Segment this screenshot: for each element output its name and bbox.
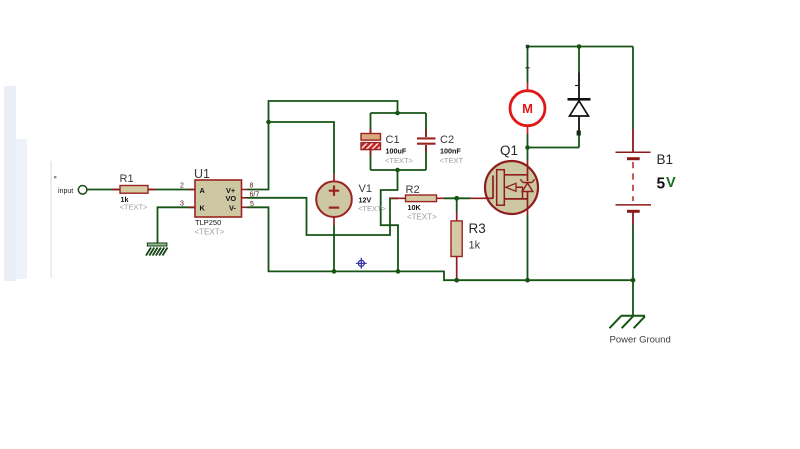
node junction gate <box>454 196 459 201</box>
resistor R2 <box>390 184 444 222</box>
svg-text:M: M <box>522 101 533 116</box>
wire U1 pin 5 to bottom common rail <box>247 207 633 280</box>
svg-text:<TEXT>: <TEXT> <box>120 202 149 211</box>
wire gate stub <box>470 197 488 199</box>
node junction R3 bottom <box>454 278 459 283</box>
node junction at V+ branch <box>266 120 271 125</box>
node junction diode top <box>577 44 582 49</box>
svg-text:5: 5 <box>657 175 666 192</box>
svg-text:100nF: 100nF <box>440 147 461 156</box>
svg-text:Q1: Q1 <box>500 143 518 158</box>
svg-text:R3: R3 <box>469 221 486 236</box>
wire gate node down to R3 <box>456 198 458 212</box>
svg-text:<TEXT>: <TEXT> <box>385 156 414 165</box>
wire branch to V1 plus <box>269 122 335 174</box>
artifact speck <box>54 176 56 178</box>
transistor Q1 MOSFET <box>485 143 538 214</box>
svg-text:100uF: 100uF <box>386 147 407 156</box>
svg-text:10K: 10K <box>408 203 422 212</box>
pin number 5 <box>250 201 254 208</box>
pin stub drain <box>527 161 529 167</box>
svg-text:A: A <box>200 186 206 195</box>
pin number 6/7 <box>250 191 260 198</box>
svg-text:U1: U1 <box>194 167 210 181</box>
motor M1 <box>510 83 545 135</box>
svg-text:R2: R2 <box>406 184 420 196</box>
svg-text:1k: 1k <box>469 240 481 252</box>
resistor R3 <box>451 212 486 280</box>
svg-text:V-: V- <box>229 203 237 212</box>
origin marker <box>356 258 367 269</box>
wire R2 to gate node <box>444 197 470 199</box>
svg-text:K: K <box>200 203 206 212</box>
pin number 3 <box>180 200 184 207</box>
wire motor top to rail <box>527 47 529 83</box>
wire V1 minus down <box>333 225 335 271</box>
node junction cap bottom <box>395 168 400 173</box>
wire source down to rail <box>527 215 529 280</box>
svg-text:C2: C2 <box>440 134 454 146</box>
svg-text:V: V <box>666 175 676 191</box>
svg-text:VO: VO <box>226 194 237 203</box>
terminal input <box>58 186 87 195</box>
svg-text:2: 2 <box>180 183 184 190</box>
svg-text:<TEXT>: <TEXT> <box>195 227 225 236</box>
wire battery top <box>632 47 634 130</box>
svg-text:C1: C1 <box>386 134 400 146</box>
wire drain up to motor and diode rail <box>528 134 580 161</box>
capacitor C1 <box>361 128 414 166</box>
node junction source on rail <box>525 278 530 283</box>
wire top supply rail <box>528 46 634 48</box>
wire U1 pin 8 up to top rail over caps <box>247 101 398 190</box>
node junction cap ground on rail <box>396 269 401 274</box>
power ground symbol <box>610 316 671 346</box>
battery V1 12V source <box>316 174 386 225</box>
pin number 2 <box>180 183 184 190</box>
wire capacitor parallel box <box>371 113 427 170</box>
node junction V1 minus on rail <box>332 269 337 274</box>
wire diode bottom <box>578 135 580 148</box>
pin end tick motor <box>526 67 530 69</box>
diode D1 flyback <box>568 73 591 136</box>
svg-text:<TEXT>: <TEXT> <box>358 204 387 213</box>
svg-text:3: 3 <box>180 200 184 207</box>
wire diode top <box>578 47 580 73</box>
wire battery bottom to rail and power ground <box>632 225 634 316</box>
svg-text:B1: B1 <box>657 152 674 167</box>
op-amp U1 TLP250 optocoupler <box>189 167 248 237</box>
svg-text:input: input <box>58 188 73 195</box>
pin stub source <box>527 209 529 216</box>
node corner mark top left <box>526 45 529 48</box>
wire input to U1 pin A <box>87 189 195 191</box>
ground (signal ground below U1) <box>146 243 168 256</box>
svg-text:Power Ground: Power Ground <box>610 334 671 345</box>
wire cap common down staircase to ground rail <box>381 170 398 271</box>
window artifact left panel strip <box>4 86 52 281</box>
pin number 8 <box>250 183 254 190</box>
svg-text:V1: V1 <box>359 183 372 195</box>
svg-text:TLP250: TLP250 <box>195 218 221 227</box>
wire U1 pin K to ground <box>158 207 196 243</box>
svg-text:<TEXT>: <TEXT> <box>407 213 437 222</box>
node junction cap top <box>395 111 400 116</box>
svg-text:<TEXT: <TEXT <box>440 156 464 165</box>
battery B1 <box>616 130 677 225</box>
node junction drain <box>525 145 530 150</box>
svg-text:R1: R1 <box>120 173 134 185</box>
resistor R1 <box>112 173 156 211</box>
svg-text:8: 8 <box>250 183 254 190</box>
wire U1 pin 6/7 VO to R2 <box>247 198 398 235</box>
node junction battery on rail <box>631 278 636 283</box>
capacitor C2 <box>417 129 463 165</box>
